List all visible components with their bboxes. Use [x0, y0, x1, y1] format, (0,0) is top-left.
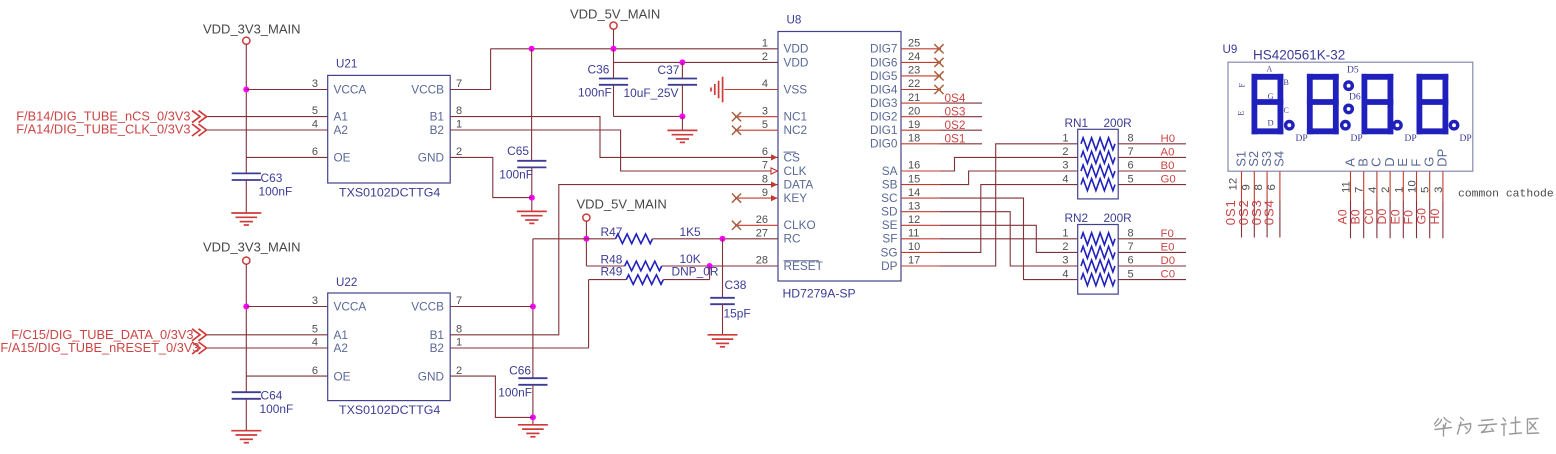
U9 pin F [1402, 159, 1424, 238]
svg-text:7: 7 [456, 78, 462, 90]
svg-text:E0: E0 [1161, 241, 1175, 253]
svg-text:3: 3 [1062, 255, 1068, 267]
svg-text:DIG7: DIG7 [870, 42, 898, 56]
svg-text:27: 27 [756, 228, 768, 240]
wire RN2 pin 7 net E0 [1118, 241, 1186, 253]
wire VCCA U22 pin 3 [246, 306, 327, 308]
svg-text:8: 8 [1128, 133, 1134, 145]
7-segment digit 2 [1310, 77, 1336, 132]
svg-text:DP: DP [1435, 149, 1450, 167]
svg-text:VDD_5V_MAIN: VDD_5V_MAIN [577, 197, 667, 212]
wire RN2 pin 8 net F0 [1118, 228, 1186, 240]
node junction at U22 VCCA [243, 304, 249, 310]
svg-text:200R: 200R [1104, 211, 1132, 225]
svg-text:B2: B2 [430, 341, 444, 355]
U9 pin S2 [1236, 151, 1261, 238]
svg-text:D: D [1268, 118, 1274, 128]
svg-text:22: 22 [908, 78, 920, 90]
wire 3V3 vertical rail into C63 [245, 44, 247, 173]
svg-text:6: 6 [1128, 160, 1134, 172]
power symbol VDD_3V3_MAIN (lower) [203, 240, 301, 265]
svg-text:VCCA: VCCA [334, 83, 367, 97]
svg-text:6: 6 [762, 146, 768, 158]
svg-text:200R: 200R [1104, 116, 1132, 130]
svg-text:SB: SB [882, 178, 898, 192]
node label 0S4 [945, 91, 966, 105]
node junction C37 top / VDD2 row [679, 59, 685, 65]
svg-text:0S4: 0S4 [945, 91, 966, 105]
wire VCCA U21 pin 3 [246, 89, 327, 91]
svg-text:A0: A0 [1336, 209, 1350, 224]
resistor R48 10K [586, 252, 709, 271]
sheet connector F/A14/DIG_TUBE_CLK_0/3V3 [16, 121, 206, 136]
svg-text:GND: GND [418, 370, 444, 384]
svg-text:23: 23 [908, 65, 920, 77]
node label 0S2 [945, 118, 966, 132]
note common cathode [1458, 189, 1554, 201]
RN1 pin numbers [1062, 133, 1133, 186]
svg-text:A: A [1267, 65, 1273, 74]
wire RN1 pin 8 net H0 [1118, 133, 1186, 145]
svg-text:18: 18 [908, 133, 920, 145]
wire SB to RN1 pin 3 [901, 171, 1078, 185]
sheet connector F/B14/DIG_TUBE_nCS_0/3V3 [16, 108, 206, 123]
svg-text:4: 4 [1062, 268, 1068, 280]
wire RN2 pin 6 net D0 [1118, 255, 1186, 267]
node junction RESET / R48 / R49 [707, 263, 713, 269]
svg-text:DP: DP [881, 259, 898, 273]
svg-text:B1: B1 [430, 110, 444, 124]
svg-text:NC1: NC1 [784, 110, 808, 124]
no-connect X on DIG4 [934, 85, 943, 94]
svg-text:24: 24 [908, 51, 920, 63]
svg-text:U21: U21 [336, 58, 357, 71]
svg-text:17: 17 [908, 255, 920, 267]
7-segment digit 3 [1364, 77, 1390, 132]
svg-text:C64: C64 [261, 389, 283, 403]
RN2 zigzag elements [1081, 233, 1115, 286]
wire VSS pin 4 stub [724, 89, 778, 91]
wire U21 GND pin 2 elbow [450, 157, 532, 197]
ground below C38 [708, 335, 738, 347]
svg-text:VDD: VDD [784, 42, 809, 56]
svg-text:VCCB: VCCB [411, 83, 444, 97]
svg-text:G: G [1268, 91, 1274, 101]
svg-text:H0: H0 [1161, 133, 1176, 145]
capacitor C63 [232, 171, 293, 213]
svg-text:100nF: 100nF [499, 168, 533, 182]
svg-text:C63: C63 [261, 171, 283, 185]
svg-text:G0: G0 [1161, 174, 1176, 186]
wire RESET pin 28 [710, 265, 778, 267]
svg-text:C37: C37 [658, 63, 680, 77]
U9 pin B [1349, 158, 1371, 238]
U9 pin DP [1428, 149, 1450, 238]
svg-text:6: 6 [312, 365, 318, 377]
svg-text:A0: A0 [1161, 146, 1175, 158]
svg-text:2: 2 [762, 51, 768, 63]
svg-text:25: 25 [908, 38, 920, 50]
svg-text:5: 5 [312, 105, 318, 117]
svg-text:VDD_5V_MAIN: VDD_5V_MAIN [570, 7, 660, 22]
U9 pin S3 [1249, 151, 1274, 238]
svg-text:D6: D6 [1349, 93, 1361, 103]
op-amp U21 TXS0102DCTTG4 box [328, 58, 451, 200]
op-amp U8 HD7279A-SP box [778, 14, 901, 301]
no-connect X on NC1 [732, 112, 741, 121]
svg-text:0S3: 0S3 [945, 104, 966, 118]
svg-text:5: 5 [312, 324, 318, 336]
svg-text:3: 3 [1433, 187, 1445, 193]
svg-text:2: 2 [456, 365, 462, 377]
wire SG to RN1 pin 4 [901, 185, 1078, 253]
decimal point digit 3 [1394, 122, 1417, 145]
svg-text:1: 1 [456, 119, 462, 131]
wire DIG2 net 0S3 [901, 116, 982, 118]
capacitor C65 [499, 144, 546, 211]
svg-text:4: 4 [1367, 187, 1379, 193]
wire RN1 pin 6 net B0 [1118, 160, 1186, 172]
svg-text:TXS0102DCTTG4: TXS0102DCTTG4 [339, 403, 440, 417]
svg-text:1: 1 [1062, 133, 1068, 145]
wire 3V3 vertical rail into C64 [245, 264, 247, 392]
U21 pin names [334, 83, 445, 165]
svg-text:11: 11 [908, 228, 919, 240]
svg-text:5: 5 [1420, 187, 1432, 193]
svg-text:6: 6 [1266, 184, 1278, 190]
svg-text:0S4: 0S4 [1262, 199, 1277, 225]
svg-text:OE: OE [334, 150, 351, 164]
pin arrow DATA [771, 182, 778, 188]
svg-text:DIG0: DIG0 [870, 137, 898, 151]
U9 pin G [1415, 157, 1437, 239]
svg-text:D5: D5 [1347, 66, 1359, 76]
svg-text:3: 3 [312, 295, 318, 307]
svg-text:RN2: RN2 [1065, 211, 1089, 225]
U9 pin C [1362, 157, 1384, 238]
svg-text:G0: G0 [1415, 208, 1429, 225]
svg-text:100nF: 100nF [259, 185, 293, 199]
node junction at U21 VCCA [243, 87, 249, 93]
svg-text:5: 5 [1128, 173, 1134, 185]
7-segment digit 1 [1254, 77, 1280, 132]
svg-text:D0: D0 [1161, 255, 1176, 267]
pin arrow CLK (open) [771, 168, 778, 174]
ground below C66 [518, 425, 548, 437]
svg-text:VDD_3V3_MAIN: VDD_3V3_MAIN [203, 240, 301, 255]
svg-text:7: 7 [456, 295, 462, 307]
svg-text:9: 9 [1240, 184, 1252, 190]
node label 0S1 [945, 132, 966, 146]
U22 pin numbers [312, 295, 462, 377]
svg-text:1: 1 [1062, 228, 1068, 240]
svg-text:B0: B0 [1161, 160, 1175, 172]
wire A1 U21 pin 5 [207, 116, 328, 118]
wire SD to RN2 pin 3 [901, 212, 1078, 266]
svg-text:10uF_25V: 10uF_25V [624, 86, 679, 100]
svg-text:VSS: VSS [784, 82, 808, 96]
no-connect X on CLKO [732, 221, 741, 230]
svg-text:C36: C36 [588, 63, 610, 77]
wire DIG0 net 0S1 [901, 143, 982, 145]
svg-text:D0: D0 [1375, 209, 1389, 225]
svg-text:CLK: CLK [784, 164, 807, 178]
wire U21 B1 to U8 CS [450, 117, 778, 158]
svg-text:100nF: 100nF [260, 402, 294, 416]
svg-text:7: 7 [1128, 146, 1134, 158]
svg-text:SD: SD [881, 205, 897, 219]
svg-text:100nF: 100nF [578, 86, 612, 100]
svg-text:HS420561K-32: HS420561K-32 [1253, 48, 1345, 63]
node junction U21 GND into C65 ground [529, 195, 535, 201]
svg-text:F0: F0 [1161, 228, 1174, 240]
display U9 HS420561K-32 box [1223, 43, 1473, 171]
wire C37 branch [681, 62, 683, 78]
svg-text:TXS0102DCTTG4: TXS0102DCTTG4 [339, 186, 440, 200]
ground VSS (rotated) [711, 77, 723, 103]
wire NC1 stub [735, 116, 778, 118]
svg-text:A1: A1 [334, 328, 348, 342]
decimal point digit 4 [1450, 122, 1471, 145]
svg-text:DIG3: DIG3 [870, 96, 898, 110]
svg-text:C: C [1284, 106, 1289, 115]
svg-text:SC: SC [881, 191, 898, 205]
svg-text:10: 10 [908, 241, 920, 253]
svg-text:DP: DP [1296, 134, 1308, 144]
svg-text:E: E [1236, 111, 1246, 116]
RN2 pin numbers [1062, 228, 1133, 281]
svg-text:A1: A1 [334, 110, 348, 124]
svg-text:S4: S4 [1272, 151, 1287, 167]
svg-text:A2: A2 [334, 123, 348, 137]
svg-text:DNP_0R: DNP_0R [672, 265, 719, 279]
svg-text:7: 7 [762, 160, 768, 172]
svg-text:1: 1 [762, 38, 768, 50]
svg-text:8: 8 [1128, 228, 1134, 240]
svg-text:4: 4 [312, 337, 318, 349]
wire DIG5 stub [901, 75, 941, 77]
no-connect X on NC2 [732, 126, 741, 135]
svg-text:VCCB: VCCB [411, 300, 444, 314]
svg-text:6: 6 [1128, 255, 1134, 267]
U8 right pin numbers [908, 38, 920, 267]
wire A2 U22 pin 4 [207, 347, 328, 349]
svg-text:U8: U8 [787, 14, 802, 27]
resistor R49 DNP_0R [589, 265, 719, 285]
svg-text:0S1: 0S1 [945, 132, 966, 146]
svg-text:1: 1 [1393, 187, 1405, 193]
op-amp U22 TXS0102DCTTG4 box [328, 276, 451, 417]
power symbol VDD_5V_MAIN (top) [570, 7, 660, 49]
svg-text:C0: C0 [1362, 209, 1376, 225]
wire KEY stub [735, 197, 778, 199]
U8 left pin names [784, 42, 823, 273]
ground below C64 [231, 431, 261, 443]
resistor network RN2 box [1065, 211, 1132, 294]
decimal point digit 2 [1342, 122, 1363, 145]
capacitor C37 [624, 63, 698, 116]
svg-text:DIG6: DIG6 [870, 55, 898, 69]
svg-text:5: 5 [1128, 268, 1134, 280]
svg-text:U22: U22 [336, 276, 357, 289]
no-connect X on DIG7 [934, 44, 943, 53]
svg-text:VDD_3V3_MAIN: VDD_3V3_MAIN [203, 22, 301, 37]
svg-text:1K5: 1K5 [680, 225, 702, 239]
wire RN2 pin 5 net C0 [1118, 269, 1186, 281]
wire 5V rail to U8 VDD pin 1 [491, 48, 778, 50]
wire RN1 pin 5 net G0 [1118, 174, 1186, 186]
svg-text:4: 4 [1062, 173, 1068, 185]
svg-text:7: 7 [1128, 241, 1134, 253]
resistor R47 1K5 [586, 225, 722, 244]
wire A1 U22 pin 5 [207, 334, 328, 336]
svg-text:DIG5: DIG5 [870, 69, 898, 83]
svg-text:SF: SF [882, 232, 897, 246]
no-connect X on DIG5 [934, 71, 943, 80]
U8 right pin names [870, 42, 898, 273]
digit 1 segment letters [1236, 65, 1289, 128]
U22 pin names [334, 300, 445, 384]
RN1 zigzag elements [1081, 138, 1115, 191]
svg-text:C65: C65 [507, 144, 529, 158]
svg-text:B1: B1 [430, 328, 444, 342]
pin arrow CS [771, 154, 778, 160]
svg-text:DP: DP [1460, 134, 1472, 144]
svg-text:RN1: RN1 [1065, 116, 1089, 130]
svg-text:DIG1: DIG1 [870, 123, 898, 137]
svg-text:U9: U9 [1223, 43, 1238, 56]
svg-text:SG: SG [880, 245, 897, 259]
capacitor C66 [498, 364, 547, 425]
svg-text:OE: OE [334, 370, 351, 384]
U9 pin S1 [1223, 151, 1248, 238]
svg-text:20: 20 [908, 105, 920, 117]
node junction RC / C38 [720, 236, 726, 242]
svg-text:11: 11 [1341, 181, 1353, 193]
svg-text:DP: DP [1405, 134, 1417, 144]
svg-text:5: 5 [762, 119, 768, 131]
wire feed to U22 VCCB rail [533, 239, 587, 378]
decimal point digit 1 [1286, 122, 1308, 145]
U9 pin A [1336, 158, 1358, 238]
svg-text:GND: GND [418, 150, 444, 164]
svg-text:RC: RC [784, 232, 802, 246]
svg-text:B: B [1284, 78, 1289, 87]
no-connect X on KEY [732, 194, 741, 203]
U9 pin E [1388, 158, 1410, 238]
svg-text:SA: SA [882, 164, 898, 178]
svg-text:9: 9 [762, 187, 768, 199]
svg-text:C38: C38 [725, 278, 747, 292]
svg-text:HD7279A-SP: HD7279A-SP [783, 287, 856, 301]
svg-text:3: 3 [1062, 160, 1068, 172]
svg-text:C66: C66 [509, 364, 531, 378]
svg-text:R47: R47 [601, 225, 623, 239]
wire DP to RN1 pin 1 [901, 144, 1078, 266]
colon dot D5 [1345, 66, 1359, 90]
wire C65 branch [531, 49, 533, 161]
svg-text:4: 4 [312, 119, 318, 131]
svg-text:10: 10 [1407, 180, 1419, 193]
wire A2 U21 pin 4 [207, 129, 328, 131]
svg-text:KEY: KEY [784, 191, 808, 205]
wire OE U22 pin 6 [246, 375, 327, 377]
svg-text:DP: DP [1351, 134, 1363, 144]
wire U21 VCCB to 5V rail [450, 49, 490, 90]
svg-text:DATA: DATA [784, 178, 814, 192]
node label 0S3 [945, 104, 966, 118]
7-segment digit 4 [1419, 77, 1445, 132]
svg-text:14: 14 [908, 187, 920, 199]
svg-text:F: F [1238, 82, 1247, 87]
wire VDD pin 2 row [614, 61, 779, 63]
node junction U22 VCCB [530, 304, 536, 310]
svg-text:B0: B0 [1349, 209, 1363, 224]
wire SE to RN2 pin 2 [901, 225, 1078, 252]
svg-text:E0: E0 [1388, 209, 1402, 224]
wire RN1 pin 7 net A0 [1118, 146, 1186, 158]
U9 pin D [1375, 157, 1397, 238]
svg-text:12: 12 [1228, 178, 1240, 191]
svg-text:8: 8 [456, 324, 462, 336]
ground below C37 [667, 130, 697, 142]
wire U22 VCCB pin 7 [450, 306, 533, 308]
ground below C63 [231, 213, 261, 225]
sheet connector F/A15/DIG_TUBE_nRESET_0/3V3 [0, 340, 206, 355]
svg-text:3: 3 [312, 78, 318, 90]
svg-text:R49: R49 [601, 265, 623, 279]
colon dot D6 [1345, 93, 1361, 113]
svg-text:15pF: 15pF [724, 307, 751, 321]
no-connect X on DIG6 [934, 58, 943, 67]
svg-text:4: 4 [762, 78, 768, 90]
wire DIG6 stub [901, 61, 941, 63]
wire U22 GND pin 2 elbow [450, 376, 533, 417]
node junction VDD5 / R47 / feed [583, 236, 589, 242]
node junction 5V rail / VDD circle [611, 46, 617, 52]
svg-text:F0: F0 [1402, 210, 1416, 225]
svg-text:1: 1 [456, 337, 462, 349]
wire DIG7 stub [901, 48, 941, 50]
wire DIG4 stub [901, 89, 941, 91]
wire SF to RN2 pin 1 [901, 238, 1078, 240]
resistor network RN1 box [1065, 116, 1132, 199]
wire R49 to U22 B2 [450, 280, 588, 348]
svg-text:C0: C0 [1161, 269, 1176, 281]
U8 left pin numbers [756, 38, 768, 267]
svg-text:DIG2: DIG2 [870, 110, 898, 124]
svg-text:15: 15 [908, 173, 920, 185]
svg-text:100nF: 100nF [498, 386, 532, 400]
svg-text:VCCA: VCCA [334, 300, 367, 314]
wire OE U21 pin 6 [246, 156, 327, 158]
node junction U22 GND into C66 ground [530, 414, 536, 420]
svg-text:8: 8 [456, 105, 462, 117]
svg-text:21: 21 [908, 92, 920, 104]
wire DIG3 net 0S4 [901, 102, 982, 104]
svg-text:F/A14/DIG_TUBE_CLK_0/3V3: F/A14/DIG_TUBE_CLK_0/3V3 [16, 121, 190, 136]
svg-text:8: 8 [762, 173, 768, 185]
svg-text:12: 12 [908, 214, 920, 226]
capacitor C38 [710, 239, 750, 335]
U21 pin numbers [312, 78, 462, 158]
wire NC2 stub [735, 129, 778, 131]
wire SC to RN2 pin 4 [901, 198, 1078, 280]
svg-text:16: 16 [908, 160, 920, 172]
svg-text:VDD: VDD [784, 55, 809, 69]
svg-text:26: 26 [756, 214, 768, 226]
sheet connector F/C15/DIG_TUBE_DATA_0/3V3 [11, 327, 206, 342]
